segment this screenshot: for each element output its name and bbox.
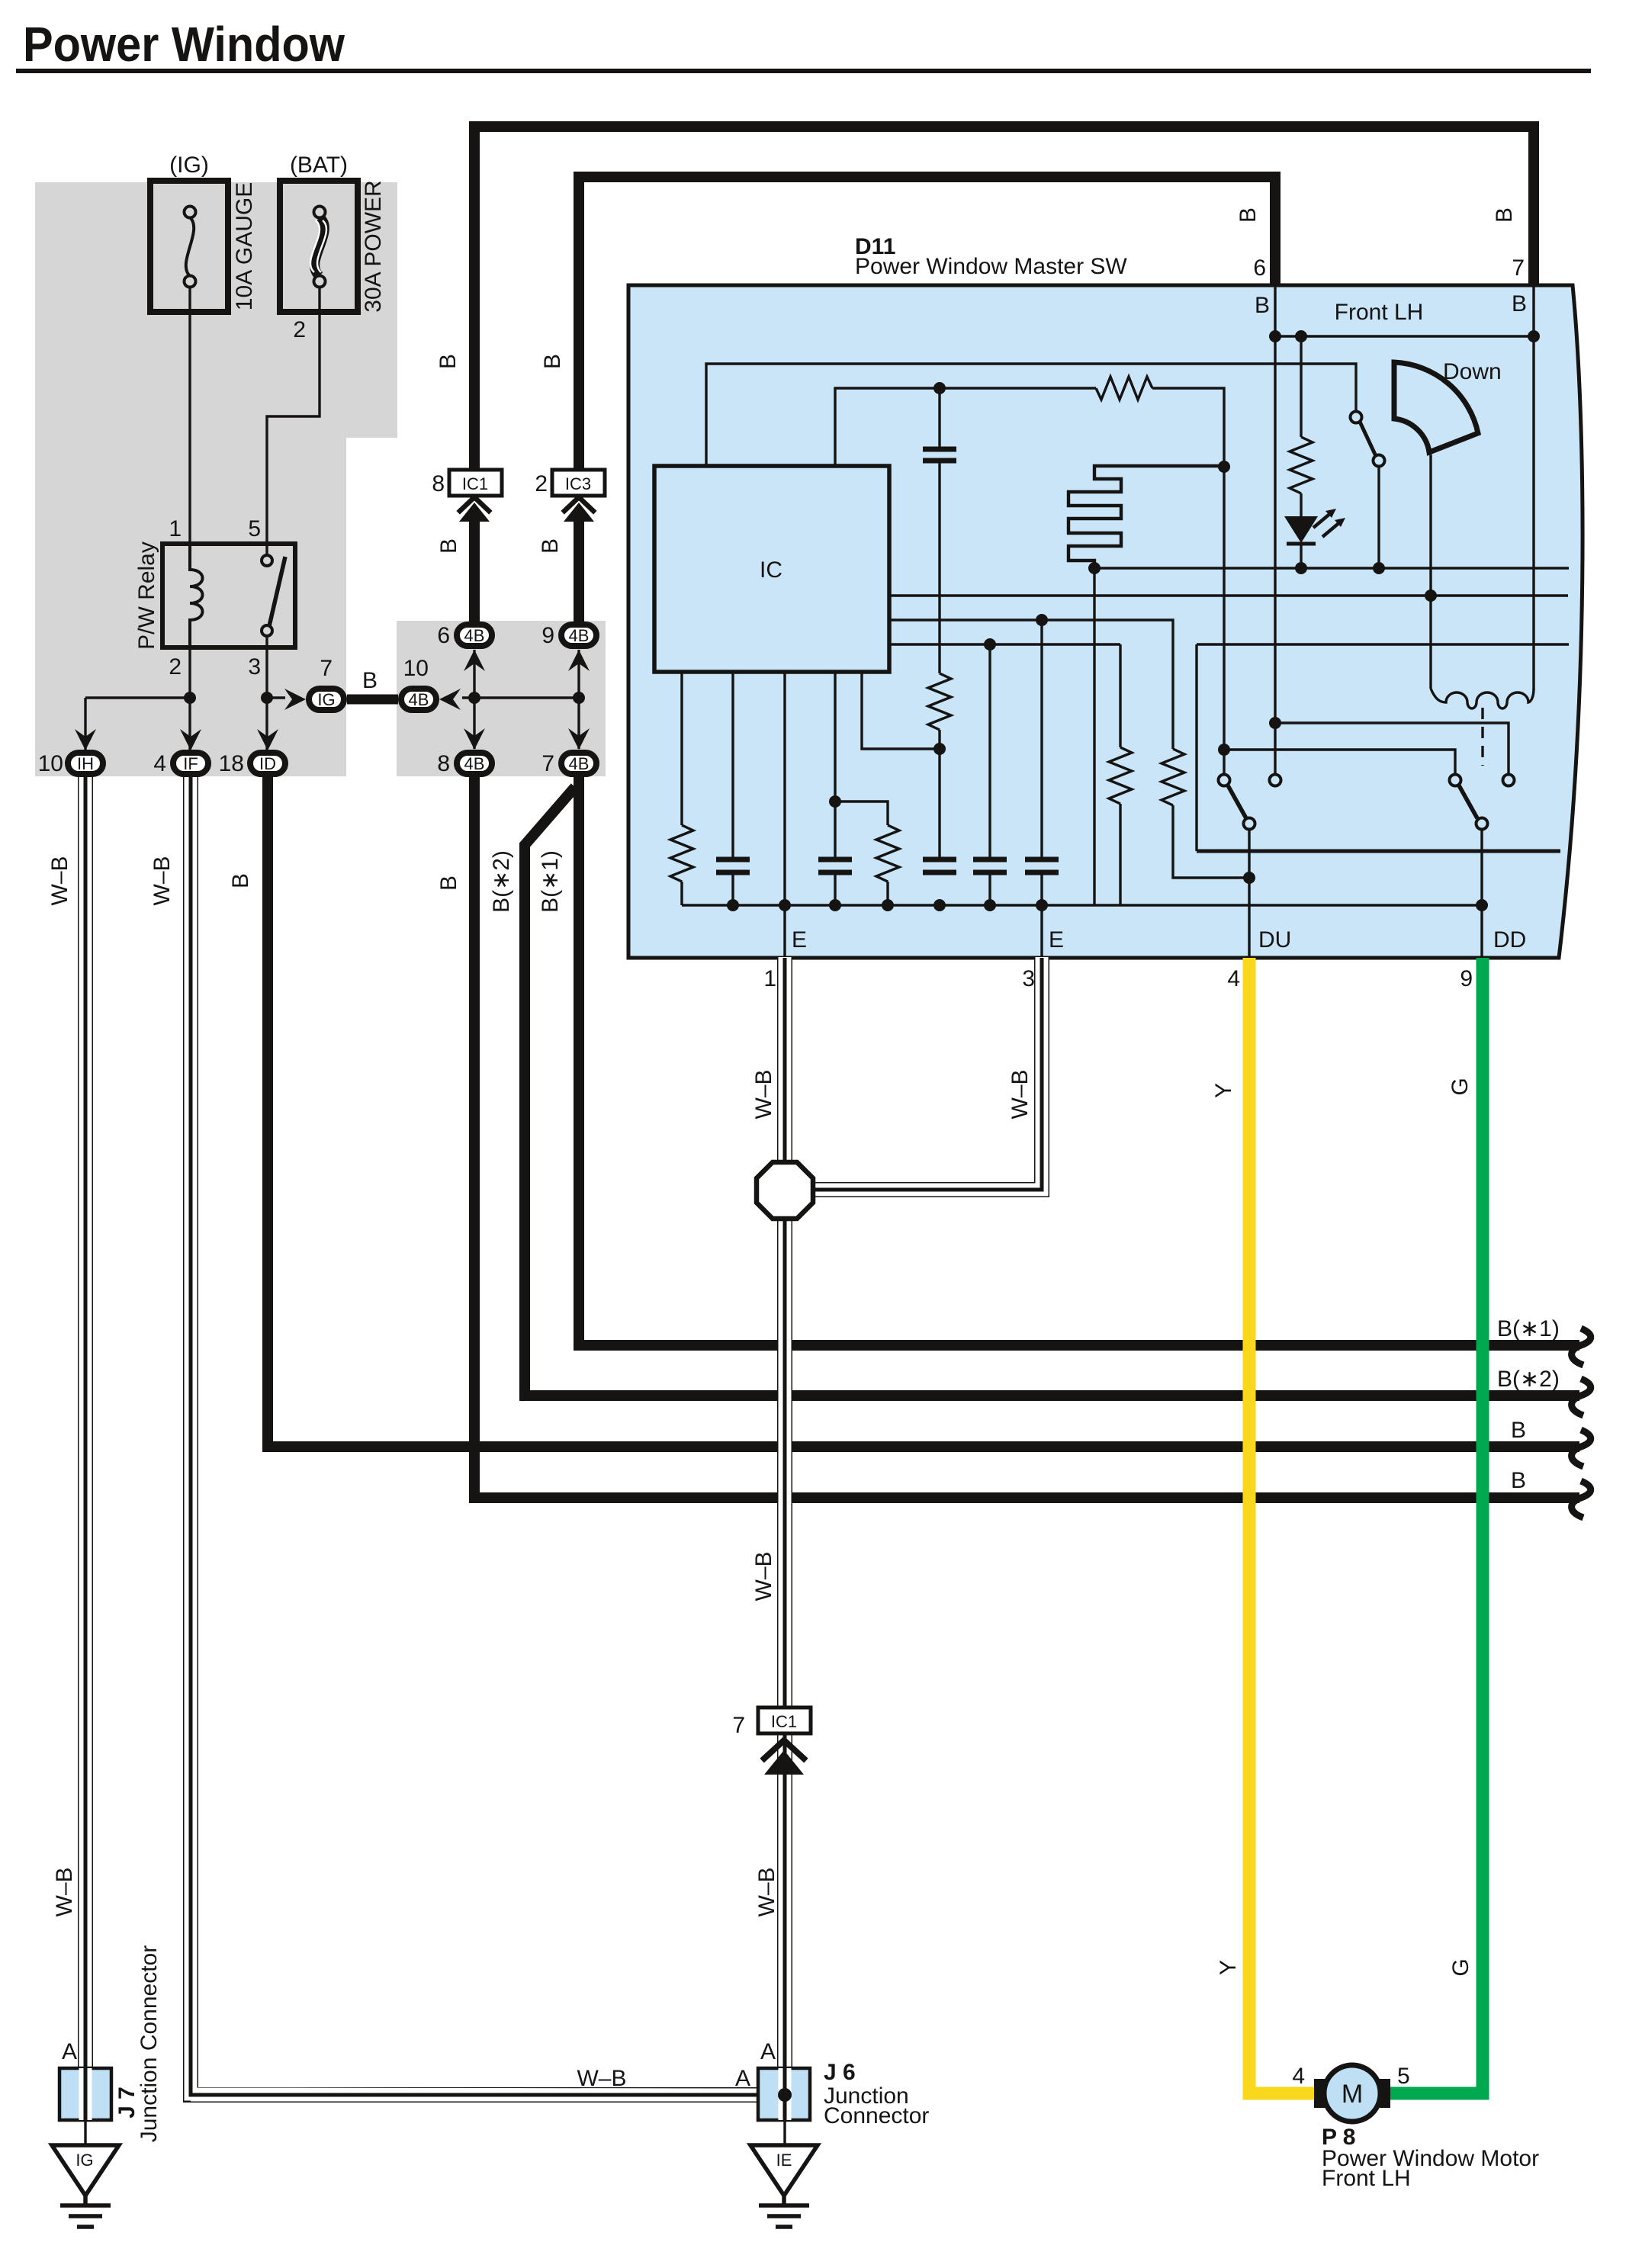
svg-text:Power Window Master SW: Power Window Master SW (855, 254, 1127, 279)
svg-text:W–B: W–B (1007, 1069, 1033, 1119)
svg-text:W–B: W–B (577, 2066, 626, 2091)
svg-text:2: 2 (293, 317, 306, 342)
svg-text:5: 5 (1397, 2064, 1410, 2089)
svg-text:Front LH: Front LH (1322, 2166, 1411, 2191)
svg-text:B: B (1512, 291, 1527, 316)
svg-text:4: 4 (1292, 2064, 1305, 2089)
svg-text:7: 7 (541, 751, 554, 776)
svg-text:B(∗2): B(∗2) (489, 850, 514, 913)
svg-text:4B: 4B (569, 626, 590, 645)
svg-text:IE: IE (776, 2151, 792, 2170)
svg-text:6: 6 (437, 623, 450, 648)
svg-text:Down: Down (1443, 359, 1502, 384)
svg-text:8: 8 (437, 751, 450, 776)
svg-text:Front LH: Front LH (1335, 300, 1424, 325)
svg-text:B: B (538, 538, 563, 554)
svg-text:4B: 4B (409, 690, 429, 709)
svg-text:9: 9 (1460, 966, 1473, 991)
svg-text:W–B: W–B (47, 856, 72, 905)
svg-text:8: 8 (432, 471, 445, 496)
svg-text:Connector: Connector (824, 2103, 929, 2128)
svg-text:IH: IH (77, 754, 94, 773)
svg-text:Power Window: Power Window (23, 17, 345, 72)
svg-text:1: 1 (169, 516, 182, 541)
svg-text:4B: 4B (464, 754, 485, 773)
svg-text:3: 3 (1022, 966, 1035, 991)
svg-text:J 7: J 7 (114, 2086, 140, 2119)
svg-text:B(∗1): B(∗1) (1497, 1316, 1560, 1341)
svg-text:G: G (1448, 1078, 1473, 1095)
svg-text:4: 4 (153, 751, 166, 776)
svg-text:B: B (1511, 1468, 1526, 1493)
svg-text:10: 10 (403, 656, 429, 681)
svg-text:M: M (1342, 2080, 1363, 2109)
svg-text:2: 2 (169, 654, 182, 679)
svg-text:B: B (228, 873, 253, 888)
svg-text:B: B (1236, 207, 1261, 223)
svg-text:4B: 4B (569, 754, 590, 773)
svg-text:B: B (435, 354, 461, 369)
svg-text:10A GAUGE: 10A GAUGE (232, 182, 257, 310)
svg-text:B: B (540, 354, 565, 369)
svg-text:18: 18 (219, 751, 244, 776)
svg-text:10: 10 (38, 751, 63, 776)
svg-text:ID: ID (259, 754, 276, 773)
svg-text:DU: DU (1258, 927, 1291, 952)
svg-text:Y: Y (1216, 1960, 1241, 1975)
svg-text:(BAT): (BAT) (290, 153, 348, 178)
svg-text:4: 4 (1227, 966, 1240, 991)
svg-text:5: 5 (248, 516, 261, 541)
svg-text:IC: IC (760, 557, 782, 583)
svg-text:IC3: IC3 (565, 474, 591, 493)
svg-text:B(∗2): B(∗2) (1497, 1367, 1560, 1392)
svg-text:DD: DD (1493, 927, 1526, 952)
svg-text:IG: IG (76, 2151, 93, 2170)
svg-text:P 8: P 8 (1322, 2125, 1356, 2150)
svg-text:A: A (760, 2039, 776, 2064)
svg-text:W–B: W–B (751, 1069, 776, 1119)
svg-text:3: 3 (248, 654, 261, 679)
svg-text:P/W Relay: P/W Relay (134, 541, 159, 650)
svg-text:30A POWER: 30A POWER (361, 180, 386, 312)
svg-text:A: A (62, 2039, 77, 2064)
svg-text:Y: Y (1211, 1083, 1236, 1098)
svg-text:IC1: IC1 (771, 1712, 797, 1731)
svg-text:2: 2 (535, 471, 548, 496)
svg-text:B: B (362, 668, 378, 693)
svg-text:9: 9 (541, 623, 554, 648)
svg-text:J 6: J 6 (824, 2060, 856, 2085)
svg-text:W–B: W–B (754, 1867, 779, 1916)
svg-text:B(∗1): B(∗1) (538, 850, 563, 913)
svg-text:E: E (1049, 927, 1064, 952)
svg-text:1: 1 (763, 966, 776, 991)
svg-text:G: G (1448, 1958, 1473, 1976)
svg-text:B: B (1492, 207, 1517, 223)
svg-text:4B: 4B (464, 626, 485, 645)
svg-text:A: A (735, 2066, 750, 2091)
svg-text:E: E (792, 927, 807, 952)
svg-text:W–B: W–B (149, 856, 175, 905)
svg-text:IG: IG (317, 690, 335, 709)
svg-text:7: 7 (1512, 255, 1525, 281)
svg-text:7: 7 (320, 656, 333, 681)
svg-text:IF: IF (183, 754, 198, 773)
svg-text:B: B (436, 875, 461, 891)
svg-text:W–B: W–B (52, 1867, 77, 1916)
svg-text:7: 7 (732, 1713, 745, 1738)
svg-text:B: B (436, 538, 461, 554)
svg-text:Junction Connector: Junction Connector (137, 1945, 162, 2143)
svg-text:6: 6 (1253, 255, 1266, 281)
svg-text:B: B (1511, 1418, 1526, 1443)
svg-text:(IG): (IG) (169, 153, 209, 178)
svg-text:IC1: IC1 (462, 474, 488, 493)
svg-text:W–B: W–B (751, 1551, 776, 1601)
svg-text:B: B (1255, 293, 1270, 318)
